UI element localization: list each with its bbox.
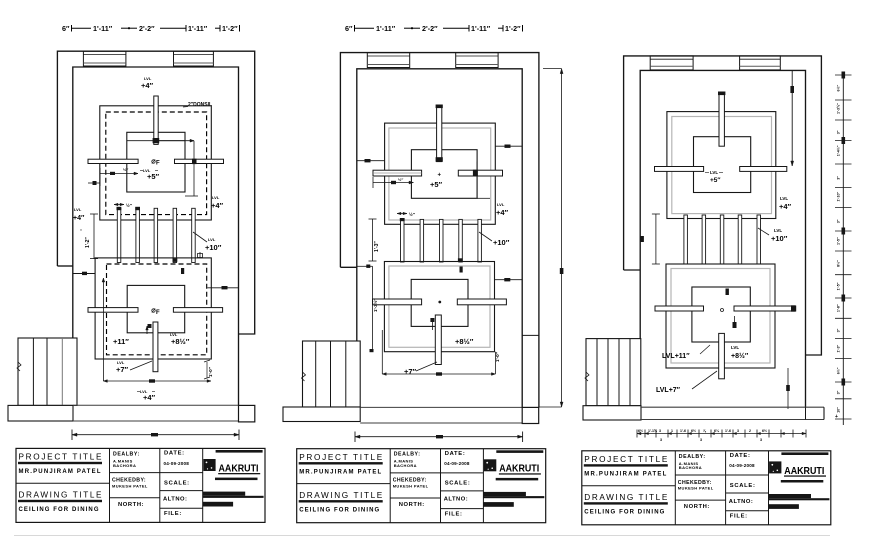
plan3 inner vdim tick [790,86,794,93]
plan3 ruler tick 1 [835,74,852,76]
svg-text:6″: 6″ [345,24,353,33]
plan3 lower cove tick b [733,322,737,328]
plan3 ruler tick 11 [835,297,852,299]
svg-text:+4″: +4″ [143,393,156,402]
plan2 bottom band top [360,406,522,408]
plan2 batten4 bottom cap [458,258,463,261]
plan2 right wall step [522,334,539,336]
dim line seg [121,27,137,29]
svg-text:+8½″: +8½″ [455,337,474,346]
svg-text:ALTNO:: ALTNO: [444,497,468,503]
tb3 col sep 2 [725,451,727,525]
tb1 col3 sep3 [160,507,203,509]
plan1 fan box dim line [127,140,185,142]
svg-text:6½″: 6½″ [837,367,841,374]
plan3 ruler black mark [842,137,846,144]
svg-text:+4″: +4″ [73,215,85,222]
svg-text:+10″: +10″ [771,234,788,243]
plan3 ruler tick 13 [835,337,852,339]
tb3 altno bar1 [768,494,811,498]
tb3 col2 sep2 [675,499,725,501]
svg-text:F: F [156,310,160,316]
tb1 altno bar3 [203,502,234,507]
plan2 stairs break squiggle [302,372,306,381]
plan2 batten 5 [478,219,482,262]
tb1 col3 sep1 [160,472,203,474]
tb1 drawing title bar [18,500,102,502]
tb3 col sep 3 [768,451,770,525]
plan1 dim arrow [190,139,194,142]
svg-text:3″: 3″ [837,219,841,223]
plan1 batten 2 [136,208,140,262]
plan2 upper beam top cap [436,105,443,109]
plan2 right room tick [505,145,511,148]
plan3 ruler tick 4 [835,140,852,142]
plan1 lower left bar [88,308,138,313]
svg-text:+8½″: +8½″ [171,337,190,346]
plan3 stair line 2 [607,339,609,406]
plan3 ruler tick 2 [835,99,852,101]
plan3 lower right vdim [787,368,789,409]
plan1 upper center beam [154,96,158,144]
plan3 window box 1 [650,56,693,70]
svg-text:SCALE:: SCALE: [164,480,190,486]
plan3 lower right bar [734,306,796,311]
plan1 outer wall [57,51,254,334]
plan2 stair platform [283,407,360,422]
svg-text:AAKRUTI: AAKRUTI [499,464,539,475]
plan1 left protrusion line [73,273,95,275]
plan1 stair line 3 [61,338,63,405]
svg-text:1'-11″: 1'-11″ [93,24,113,33]
plan3 batten 3 [720,215,724,264]
plan1 stairs box [18,338,77,405]
plan3 stairs break squiggle [585,372,589,381]
svg-text:FILE:: FILE: [730,514,748,520]
tb1 logo bar2 [215,478,258,481]
svg-text:04-09-2008: 04-09-2008 [729,463,755,468]
svg-text:+4″: +4″ [211,201,224,210]
svg-text:+5″: +5″ [430,180,443,189]
svg-text:LVL: LVL [731,345,739,350]
svg-text:1′-8″: 1′-8″ [837,304,841,312]
plan1 right dim line y288 [207,287,238,289]
plan3 batten 1 [684,215,688,264]
plan3 +11 leader [700,345,710,354]
tb2 col3 sep2 [441,490,484,492]
plan3 left wall tick [641,236,644,242]
plan2 lower beam tick [430,318,434,322]
plan2 fanbox right dim [476,162,478,199]
plan1 batten 1 [117,208,121,262]
svg-text:2: 2 [749,429,751,433]
tb3 logo bar2 [781,480,824,483]
plan2 lower right tick [504,278,510,281]
tb2 logo top text strip [496,450,543,453]
svg-text:3″: 3″ [837,130,841,134]
plan2 inner room wall [357,69,522,408]
plan1 upper cove dashed rect [106,112,207,215]
svg-text:LVL: LVL [780,196,788,201]
plan3 band right edge [823,407,825,419]
svg-text:NORTH:: NORTH: [399,502,425,508]
tb2 col1 sep [297,483,391,485]
svg-text:LVL+7″: LVL+7″ [656,387,681,394]
tb2 logo underline [499,473,541,474]
svg-text:NORTH:: NORTH: [118,502,144,508]
svg-text:DEALBY:: DEALBY: [113,451,140,457]
svg-text:NORTH:: NORTH: [684,504,710,510]
tb2 col2 sep2 [390,497,440,499]
plan3 right ruler line [842,74,844,425]
plan2 batten 1 [401,219,405,262]
tb3 project title bar [584,464,668,466]
plan3 upper cove gray rect [672,117,772,214]
svg-text:8½″: 8½″ [837,260,841,267]
svg-text:1'-11″: 1'-11″ [471,24,491,33]
plan3 bottom band bottom [641,419,824,421]
plan3 window box 2 [740,56,781,70]
plan2 bottom band bottom [360,422,522,424]
svg-text:LVL+11″: LVL+11″ [662,353,690,360]
tb3 col3 sep3 [726,510,769,512]
tb1 logo top text strip [216,450,263,453]
plan2 stair line 1 [315,341,317,407]
plan2 lower cove bottom dim [382,373,495,375]
plan2 right room dim line [495,145,522,147]
plan1 lower cove dashed rect [107,264,207,355]
plan3 ruler black mark [842,228,846,235]
tb3 altno bar3 [768,504,799,509]
plan3 ruler tick 6 [835,187,852,189]
plan2 bottom dim tick [436,435,443,438]
svg-text:+4″: +4″ [779,202,792,211]
plan2 upper fan box [411,150,477,199]
plan3 batten 2 [702,215,706,264]
plan2 lower left vdim tick [370,349,374,352]
plan1 stair platform [8,405,73,421]
svg-text:+10″: +10″ [205,243,222,252]
plan1 lower dim tick [149,379,155,382]
plan1 beam dim line right [158,140,194,142]
svg-text:3: 3 [760,438,762,442]
title block 1 outer frame [16,448,265,522]
plan3 ruler tick 7 [835,207,852,209]
svg-text:MUKESH PATEL: MUKESH PATEL [393,484,429,489]
svg-text:3: 3 [659,429,661,433]
plan3 lower fan mark [721,309,724,312]
tb2 drawing title bar [299,500,383,502]
tb1 project title bar [18,462,102,464]
svg-text:LVL: LVL [208,237,216,242]
faint bottom scan line [14,535,830,537]
svg-text:6½″: 6½″ [837,85,841,92]
svg-text:6½: 6½ [691,429,696,433]
tb1 logo underline [218,473,260,474]
plan2 right dim connector top [543,68,562,70]
plan1 donsil leader [183,106,188,109]
plan3 lower right bar tick [791,305,796,311]
svg-text:+: + [438,173,442,179]
svg-text:+7″: +7″ [116,365,129,374]
dim line seg [71,27,91,29]
tb1 logo black square [203,459,215,471]
plan3 lower fan box [692,287,750,342]
plan1 upper beam end cap [153,138,160,143]
svg-text:1′-6: 1′-6 [725,429,731,433]
plan3 +7 leader [692,371,717,389]
plan3 ruler tick 16 [835,398,852,400]
plan1 outer wall left step [57,265,72,267]
plan2 right vdim tick [560,268,564,274]
plan3 leader to +10 [758,228,769,235]
svg-text:AAKRUTI: AAKRUTI [219,463,259,474]
plan3 ruler tick 12 [835,317,852,319]
tb3 logo underline [784,475,826,476]
svg-text:6″: 6″ [62,24,70,33]
plan2 left bar dim line [373,182,414,184]
plan3 upper fan box [694,137,751,193]
plan1 bottom band bottom [73,420,239,422]
svg-text:6½: 6½ [638,429,643,433]
svg-text:CEILING FOR DINING: CEILING FOR DINING [299,507,379,513]
svg-text:AAKRUTI: AAKRUTI [784,466,824,477]
plan2 lower cove tick [460,267,463,273]
plan1 batten1 top cap [117,207,122,210]
tb2 col sep 1 [389,449,391,523]
plan1 stair line 1 [32,338,34,405]
dim line seg [215,27,220,29]
plan2 upper right bar tick [473,170,478,177]
plan1 lower cove outer rect [95,258,211,359]
plan1 leader to +10 [193,232,207,242]
tb3 logo black square [769,461,781,473]
tb2 col3 sep1 [441,472,484,474]
plan1 stair line 2 [46,338,48,405]
plan1 band right block [239,405,255,422]
dim line seg [160,27,186,29]
svg-text:+10″: +10″ [493,238,510,247]
svg-text:04-09-2008: 04-09-2008 [164,461,190,466]
svg-text:3″: 3″ [837,390,841,394]
svg-text:+4″: +4″ [496,208,509,217]
plan3 ruler tick 5 [835,163,852,165]
plan1 left dim diamond [93,181,97,185]
plan1 right dim tick [222,286,228,289]
svg-text:ALTNO:: ALTNO: [163,496,187,502]
plan1 window box 2 [174,51,214,66]
svg-text:MUKESH PATEL: MUKESH PATEL [678,486,714,491]
plan3 upper left bar [655,167,704,172]
plan2 upper right bar [458,170,502,176]
dim line seg [443,27,469,29]
plan1 upper fan symbol [152,160,155,163]
svg-text:″: ″ [80,228,82,233]
plan3 band inner edge [805,407,807,419]
tb1 col sep 2 [159,448,161,522]
plan3 upper beam top cap [718,92,725,96]
plan3 stair line 4 [629,339,631,406]
plan2 lower cove gray rect [389,266,490,347]
svg-text:1'-3½″: 1'-3½″ [372,298,378,312]
plan1 bottom dim tick [151,433,158,436]
plan1 dim vline right of fan box [193,141,195,196]
plan3 batten left dim [655,214,657,264]
svg-text:+7″: +7″ [404,367,417,376]
plan3 stair line 1 [596,339,598,406]
tb2 logo bar2 [496,478,539,481]
plan3 inner room wall [640,70,805,407]
plan1 inner room wall [73,67,239,405]
svg-text:1'-11″: 1'-11″ [188,24,208,33]
plan3 lower left bar [655,306,704,311]
plan1 lower right bar [173,308,222,313]
svg-text:1′-6: 1′-6 [680,429,686,433]
svg-text:2'-2″: 2'-2″ [139,24,155,33]
svg-text:3″: 3″ [837,176,841,180]
plan1 batten 3 [154,208,158,262]
svg-text:MR.PUNJIRAM PATEL: MR.PUNJIRAM PATEL [299,469,381,475]
tb1 col2 sep2 [110,497,160,499]
tb2 altno bar1 [483,492,526,496]
plan1 lower cove bottom dim [103,380,211,382]
svg-text:ALTNO:: ALTNO: [729,499,753,505]
svg-text:½″: ½″ [409,211,416,217]
plan1 lower center beam [153,322,158,372]
svg-text:6½: 6½ [762,429,767,433]
svg-text:1'-2″: 1'-2″ [505,24,521,33]
plan2 bottom dim line [355,436,523,438]
plan1 batten gap arrows [114,204,124,206]
plan1 window box 1 [83,51,126,66]
plan1 bottom band top [73,404,239,406]
svg-text:LVL: LVL [710,170,718,175]
plan1 lower cove tick [181,268,184,274]
plan2 left room tick [365,159,371,162]
svg-text:2″DONSIL: 2″DONSIL [188,102,212,108]
svg-text:½″: ½″ [123,167,128,172]
svg-text:DRAWING TITLE: DRAWING TITLE [584,493,668,502]
plan2 lower left bar [373,299,422,305]
svg-text:10″: 10″ [837,407,841,413]
svg-text:+11″: +11″ [113,337,129,346]
plan1 +7 leader [130,361,152,370]
plan1 upper right bar tick [192,159,197,164]
svg-text:½″: ½″ [398,177,403,182]
svg-text:+8½″: +8½″ [731,352,749,360]
plan1 lower fan box [127,285,185,332]
plan2 left room dim line [357,160,385,162]
plan2 stair line 2 [330,341,332,407]
plan2 upper cove gray rect [389,128,491,220]
svg-text:3: 3 [700,438,702,442]
plan1 upper right bar [175,159,224,163]
plan3 ruler tick 15 [835,381,852,383]
svg-text:DRAWING TITLE: DRAWING TITLE [19,491,103,500]
svg-text:FILE:: FILE: [164,511,182,517]
plan3 ruler black mark [842,72,846,79]
plan1 stairs break squiggle [17,362,21,371]
plan2 lower right bar [457,299,506,305]
plan1 left protrusion tick [82,272,87,275]
plan2 lower dim tick [436,372,442,375]
svg-text:1'-0″: 1'-0″ [208,366,213,377]
svg-text:BACHORA: BACHORA [113,463,136,468]
tb1 col1 sep [16,482,110,484]
svg-text:BACHORA: BACHORA [394,463,417,468]
svg-text:CEILING FOR DINING: CEILING FOR DINING [19,507,99,513]
svg-text:BACHORA: BACHORA [679,465,702,470]
plan1 left dim ext [99,168,101,186]
tb1 altno bar2 [203,496,264,498]
plan3 upper cove outer rect [667,112,776,219]
title block 2 outer frame [297,449,546,523]
plan3 ruler black mark [842,295,846,302]
plan1 left bar dim line [100,173,138,175]
plan2 outer wall left step [340,266,356,268]
plan3 upper center beam [719,94,724,146]
svg-text:1′-5″: 1′-5″ [837,282,841,290]
tb3 col3 sep1 [726,474,769,476]
plan2 upper center beam [437,107,442,161]
svg-text:1'-2″: 1'-2″ [85,237,91,248]
plan3 lower cove gray rect [671,269,770,364]
svg-text:DATE:: DATE: [164,451,185,457]
plan2 band right block [522,407,539,423]
plan1 batten2 top cap [135,207,140,210]
plan3 stair platform [583,406,641,420]
plan3 bottom band top [641,406,824,408]
plan2 batten gap arrows [397,213,407,215]
svg-text:MR.PUNJIRAM PATEL: MR.PUNJIRAM PATEL [584,471,666,477]
plan3 ruler black mark [842,379,846,386]
title block 3 outer frame [582,451,831,525]
svg-text:MR.PUNJIRAM PATEL: MR.PUNJIRAM PATEL [19,469,101,475]
svg-text:LVL: LVL [212,195,220,200]
plan3 lower right vdim tick [786,385,790,391]
svg-text:DATE:: DATE: [445,451,466,457]
svg-text:FILE:: FILE: [445,512,463,518]
plan3 upper right bar [740,167,787,172]
plan1 batten left dim line [93,214,95,259]
svg-text:+5″: +5″ [147,172,160,181]
svg-text:1′-3″: 1′-3″ [837,344,841,352]
plan2 batten 4 [459,219,463,262]
svg-text:DEALBY:: DEALBY: [394,452,421,458]
svg-text:1'-2″: 1'-2″ [222,24,238,33]
plan1 +10 small box [198,254,203,258]
tb2 altno bar3 [483,502,514,507]
plan1 window box2 inner bot [174,62,214,64]
plan2 window box 1 [367,53,409,68]
plan2 lower fan mark [438,301,441,304]
plan3 stairs box [586,339,641,406]
plan2 batten1 top cap [400,218,405,221]
plan2 outer wall [340,53,539,408]
plan2 left bar dim tick [391,181,396,184]
plan3 ruler tick 17 [835,418,852,420]
plan1 batten 4 [173,208,177,262]
svg-text:CEILING FOR DINING: CEILING FOR DINING [584,509,664,515]
plan1 upper left bar [88,159,138,163]
dim line seg [404,27,420,29]
plan1 window box1 inner bot [83,62,126,64]
svg-text:DATE:: DATE: [730,453,751,459]
plan2 +7 leader [416,362,437,371]
svg-text:DRAWING TITLE: DRAWING TITLE [299,491,383,500]
plan2 right big vdim [561,69,563,407]
tb3 col3 sep2 [726,492,769,494]
